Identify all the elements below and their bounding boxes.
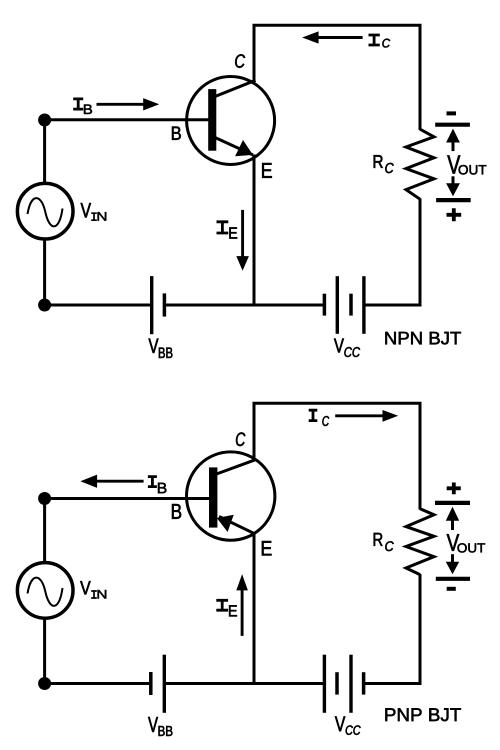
label VBB letter V (bottom) <box>148 717 158 732</box>
label VOUT letter V (bottom) <box>447 534 460 551</box>
resistor RC (bottom) zigzag <box>406 509 434 575</box>
battery VCC plate 3 long (bottom ckt) <box>349 655 352 713</box>
label IE glyph I (drawn, bottom) <box>216 600 228 611</box>
transistor Q2 circle (PNP) <box>187 452 275 540</box>
wire: base wire <box>45 497 210 500</box>
label IB subscript B (bottom) <box>158 483 166 493</box>
battery VCC plate 4 long <box>362 276 365 334</box>
label B (base) <box>172 127 181 140</box>
arrow IB head (points left, bottom) <box>80 475 97 488</box>
vout bottom terminal bar <box>436 198 471 202</box>
label NPN BJT <box>385 332 461 345</box>
label RC subscript C italic (bottom) <box>385 541 393 551</box>
transistor Q2 collector diagonal <box>217 460 256 474</box>
AC source VIN circle (bottom) <box>17 563 73 619</box>
arrow IE shaft (points up, bottom) <box>241 590 244 636</box>
label VBB letter V <box>149 339 159 353</box>
arrow IE shaft (points down) <box>241 210 244 258</box>
label PNP BJT <box>385 708 461 721</box>
sine wave inside VIN (bottom) <box>28 578 63 606</box>
vout top terminal bar (bottom ckt) <box>435 501 470 505</box>
label VIN subscript N <box>98 212 107 220</box>
node C top-left junction dot (bottom ckt) <box>38 492 51 505</box>
wire: left rail upper (node to VIN) <box>43 120 46 183</box>
label RC letter R (bottom) <box>374 533 383 546</box>
label VBB subscript BB (bottom) <box>159 726 173 736</box>
wire: right rail lower below resistor <box>364 199 420 306</box>
wire: left rail lower (VIN to bottom node) <box>43 618 46 683</box>
arrow IB head <box>143 98 159 110</box>
arrow IE head (points down) <box>236 256 249 271</box>
transistor Q2 base bar <box>209 467 217 527</box>
vout top terminal bar <box>435 123 470 127</box>
wire: emitter vertical <box>253 155 256 306</box>
arrow IC shaft (points right, bottom) <box>335 414 383 417</box>
wire: bottom rail middle segment <box>164 304 324 307</box>
transistor Q1 circle (NPN) <box>187 77 275 165</box>
wire: collector vertical + top rail + right rail upper <box>254 403 420 509</box>
node A top-left junction dot <box>38 114 51 127</box>
vout plus sign (bottom ckt, top) <box>447 483 461 495</box>
transistor Q1 emitter diagonal <box>215 138 253 155</box>
vout up-arrow shaft (bottom ckt) <box>451 520 454 530</box>
arrow IC shaft (points left) <box>318 36 363 39</box>
battery VCC plate 3 short <box>349 294 353 316</box>
wire: right rail lower below resistor <box>364 574 420 684</box>
battery VCC plate 1 short <box>323 294 327 316</box>
vout up-arrow head (bottom ckt) <box>446 507 459 521</box>
arrow IB shaft <box>97 103 145 106</box>
label VCC subscript CC italic (bottom) <box>346 725 361 734</box>
battery VBB long plate <box>150 276 153 334</box>
label C (collector, bottom) italic <box>236 432 245 446</box>
label E (emitter, bottom) <box>262 541 272 555</box>
label VCC subscript CC italic <box>344 347 360 357</box>
label VIN subscript N (bottom) <box>98 590 107 598</box>
vout up-arrow shaft <box>452 142 455 152</box>
battery VBB short plate <box>163 293 167 316</box>
wire: bottom rail left segment <box>45 682 151 685</box>
label VCC letter V (bottom) <box>335 716 345 731</box>
label VOUT subscript OUT <box>459 165 487 175</box>
label IC glyph I (drawn) <box>369 34 380 45</box>
vout bottom terminal bar (bottom ckt) <box>436 577 470 581</box>
vout minus sign (top) <box>447 111 457 115</box>
transistor Q1 emitter arrowhead <box>235 140 253 156</box>
vout plus sign (bottom) <box>447 208 462 221</box>
arrow IB shaft (points left, bottom) <box>96 480 144 483</box>
battery VBB long plate (bottom ckt) <box>163 655 166 713</box>
wire: left rail lower (VIN to bottom node) <box>43 239 46 305</box>
sine wave inside VIN <box>28 198 63 226</box>
vout down-arrow shaft (bottom ckt) <box>451 554 454 562</box>
AC source VIN circle <box>17 183 73 239</box>
transistor Q2 emitter diagonal <box>219 517 255 535</box>
label VOUT subscript OUT (bottom) <box>458 543 486 552</box>
label VOUT letter V <box>447 155 460 173</box>
label C (collector) italic <box>235 54 245 68</box>
label IE subscript E (bottom) <box>229 605 237 616</box>
battery VBB short plate (bottom ckt) <box>149 672 153 695</box>
wire: collector vertical + top rail + right rail upper <box>254 25 420 130</box>
arrow IE head (points up, bottom) <box>236 574 248 590</box>
arrow IC head (points right, bottom) <box>383 410 399 422</box>
battery VCC plate 1 long (bottom ckt) <box>323 655 326 713</box>
transistor Q1 collector diagonal <box>215 80 256 96</box>
label IE glyph I (drawn) <box>217 221 229 233</box>
label IE subscript E <box>229 227 237 238</box>
vout down-arrow head <box>446 183 460 196</box>
label VIN subscript I (serif style, bottom) <box>91 590 97 599</box>
label VCC letter V <box>334 339 344 353</box>
label RC letter R <box>374 155 383 168</box>
transistor Q1 base bar <box>208 89 216 151</box>
label VBB subscript BB <box>159 348 173 358</box>
label IB glyph I (drawn, bottom) <box>148 477 157 487</box>
label IB subscript B <box>84 105 92 115</box>
label IC subscript C italic <box>382 39 390 48</box>
label IC glyph I (drawn, bottom) <box>309 410 318 421</box>
battery VCC plate 4 short (bottom ckt) <box>362 672 366 694</box>
resistor RC (top) zigzag <box>406 129 434 199</box>
wire: bottom rail middle segment <box>164 682 324 685</box>
battery VCC plate 2 long <box>336 276 339 334</box>
vout up-arrow head <box>446 129 460 143</box>
wire: emitter vertical <box>253 534 256 684</box>
label VIN letter V (bottom) <box>80 581 90 594</box>
battery VCC plate 2 short (bottom ckt) <box>335 672 339 694</box>
node B bottom-left junction dot <box>38 299 51 312</box>
wire: left rail upper (node to VIN) <box>43 499 46 563</box>
vout minus sign (bottom ckt, bottom) <box>447 587 456 591</box>
arrow IC head (points left) <box>302 31 319 43</box>
wire: base wire <box>45 118 209 121</box>
label IC subscript C italic (bottom) <box>322 416 329 426</box>
label RC subscript C italic <box>385 163 393 173</box>
transistor Q2 emitter arrowhead (points toward base bar) <box>217 515 234 532</box>
label VIN subscript I (serif style) <box>91 212 97 221</box>
vout down-arrow head (bottom ckt) <box>446 562 459 575</box>
node D bottom-left junction dot (bottom ckt) <box>38 677 51 690</box>
label E (emitter) <box>262 163 272 178</box>
label VIN letter V <box>81 203 91 217</box>
vout down-arrow shaft <box>452 176 455 184</box>
label B (base, bottom) <box>172 504 181 519</box>
wire: bottom rail left segment <box>45 304 152 307</box>
label IB glyph I (drawn) <box>73 98 83 110</box>
